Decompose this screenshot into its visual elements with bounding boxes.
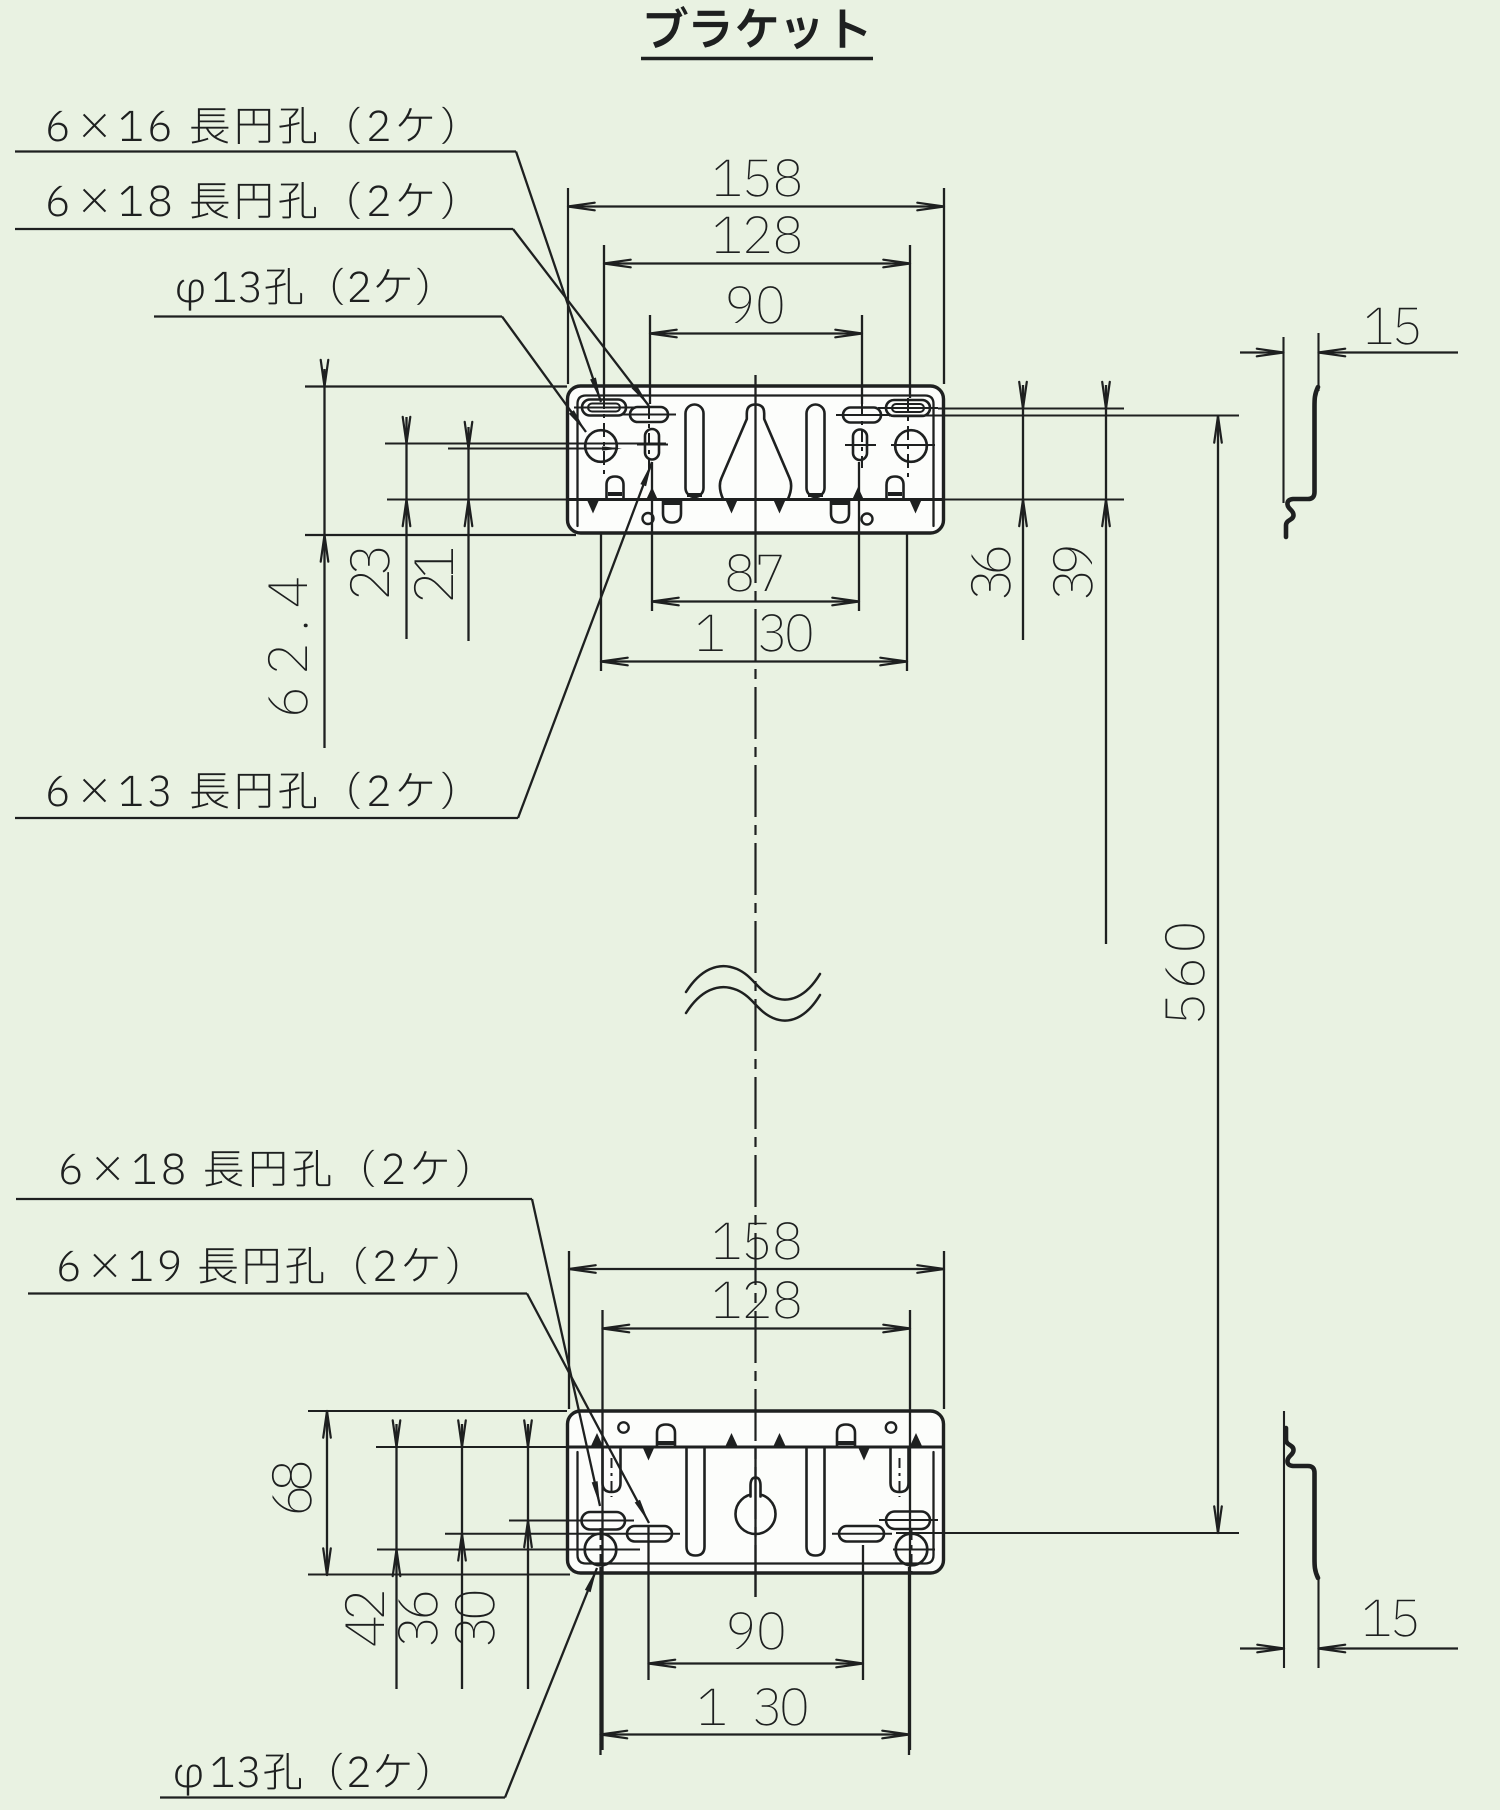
- tall slot left: [686, 405, 704, 498]
- dim 128 top: [715, 216, 800, 254]
- leader 6x18 bottom: [532, 1199, 600, 1506]
- dim 15 bottom: [1365, 1600, 1417, 1637]
- ref line fold left ext: [387, 498, 567, 500]
- label 6x18 long-hole: [48, 182, 452, 219]
- slot 6x16 right (double outline): [886, 400, 930, 416]
- leader phi13 bottom: [505, 1568, 597, 1798]
- slot 6x16 left (double outline): [582, 400, 626, 416]
- ref line slot 6x19 bottom left: [445, 1533, 620, 1535]
- centerline slot 6x18 right vertical: [861, 404, 863, 470]
- slot 6x18 left bottom: [582, 1512, 626, 1530]
- label 6x16 long-hole: [48, 107, 452, 144]
- arch tab left: [607, 477, 624, 500]
- dim 39: [1053, 547, 1093, 597]
- slot 6x18 right: [843, 408, 881, 423]
- side view top profile: [1286, 387, 1318, 537]
- small hole left: [643, 513, 654, 524]
- dim 68: [272, 1463, 312, 1513]
- dim 130 bottom: [700, 1689, 725, 1725]
- slot 6x13 left: [645, 429, 659, 460]
- side view bottom profile: [1286, 1428, 1318, 1578]
- edge arrow marks on fold line bottom: [591, 1433, 603, 1446]
- dim 90 top: [729, 286, 783, 324]
- slot bottom arrows bottom bracket: [643, 1447, 655, 1461]
- dim 36 bottom: [398, 1593, 438, 1645]
- arch tab right bottom: [837, 1425, 855, 1448]
- title text ブラケット: [647, 6, 867, 49]
- tall slot right bottom: [807, 1448, 825, 1556]
- center keyhole bell: [720, 405, 791, 500]
- dim 23 left: [350, 549, 390, 597]
- dim 42: [345, 1592, 384, 1645]
- dim 158 top: [715, 159, 800, 197]
- bottom bracket inner edge line: [578, 1452, 934, 1564]
- dim 15 top: [1367, 308, 1419, 345]
- slot bottom arrows: [646, 487, 658, 500]
- dim 21 left: [414, 549, 453, 599]
- hole phi13 left bottom: [585, 1534, 617, 1566]
- label phi13 hole: [177, 268, 427, 311]
- edge arrow marks on fold line: [587, 500, 599, 514]
- center vertical line bottom bracket: [754, 1447, 756, 1597]
- label 6x18 long-hole bottom: [61, 1150, 467, 1187]
- leader 6x18: [513, 229, 649, 406]
- centerline slot 6x18 left vertical: [648, 407, 650, 470]
- break wave lower: [686, 987, 820, 1020]
- ref line fold bottom left ext: [376, 1446, 567, 1448]
- dim 62.4 left: [268, 578, 308, 714]
- top bracket outline: [568, 386, 944, 533]
- leader phi13: [502, 317, 586, 433]
- label phi13 bottom: [175, 1753, 427, 1796]
- slot 6x18 right bottom: [886, 1512, 930, 1530]
- leader 6x16: [516, 152, 601, 403]
- hole phi13 left: [585, 430, 617, 462]
- center vertical line through keyhole: [754, 375, 756, 531]
- hole phi13 right bottom: [896, 1534, 928, 1566]
- hanging slot right bottom: [891, 1447, 909, 1492]
- small hole right bottom bracket: [886, 1422, 896, 1432]
- ref line slot6x16 right ext: [938, 407, 1124, 409]
- tall slot left bottom: [687, 1448, 705, 1556]
- ref line 560 bottom: [896, 1532, 1239, 1534]
- dim 130 top: [698, 615, 723, 651]
- arch tab left bottom: [657, 1425, 675, 1448]
- arch tab right: [887, 477, 904, 500]
- slot 6x18 left: [630, 407, 668, 422]
- leader 6x19: [527, 1294, 649, 1524]
- tall slot right: [807, 405, 825, 498]
- slot 6x19 left: [627, 1526, 672, 1542]
- vertical centerline dashed: [754, 531, 756, 1597]
- dim 90 bottom: [730, 1612, 784, 1650]
- dim 560: [1165, 924, 1205, 1021]
- slot 6x19 right: [839, 1526, 884, 1542]
- centerline slot 6x16 right vertical: [907, 398, 909, 478]
- bottom bracket outline: [568, 1411, 944, 1573]
- centerline slot 6x16 left vertical: [603, 395, 605, 478]
- hanging tab left: [663, 500, 681, 523]
- small hole right: [862, 514, 873, 525]
- ref line hole bottom left: [377, 1548, 583, 1550]
- dim 36: [971, 548, 1011, 598]
- leader 6x13: [518, 462, 652, 818]
- ref line slot6x18 right ext to 560: [889, 414, 1239, 416]
- dim 30: [455, 1592, 495, 1645]
- break wave upper: [686, 966, 820, 999]
- keyhole pear center bottom: [736, 1494, 776, 1534]
- bottom bracket fold line: [568, 1446, 943, 1449]
- hanging tab right: [831, 500, 849, 523]
- dim 158 bottom: [715, 1222, 800, 1260]
- dim 128 bottom: [715, 1281, 800, 1319]
- ref line slot 6x18 bottom left: [509, 1519, 575, 1521]
- hole phi13 right: [895, 430, 927, 462]
- ref line hole center left: [385, 442, 666, 444]
- top bracket inner edge line: [578, 396, 934, 527]
- label 6x19 long-hole: [59, 1247, 457, 1284]
- top bracket fold line: [568, 498, 943, 501]
- dim 87: [728, 554, 782, 592]
- ref line fold right ext: [944, 498, 1124, 500]
- label 6x13 long-hole: [48, 772, 452, 809]
- small hole left bottom bracket: [618, 1422, 628, 1432]
- title underline: [641, 57, 873, 61]
- hanging slot left bottom: [603, 1447, 621, 1492]
- ref line slot center left: [448, 447, 618, 449]
- slot 6x13 right: [853, 430, 867, 461]
